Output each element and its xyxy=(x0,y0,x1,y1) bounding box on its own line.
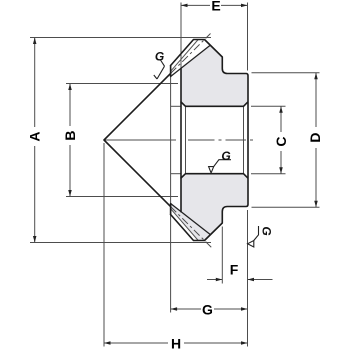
svg-text:B: B xyxy=(62,130,78,140)
svg-text:A: A xyxy=(27,131,43,141)
svg-text:G: G xyxy=(155,50,164,64)
svg-text:H: H xyxy=(171,336,181,350)
svg-text:C: C xyxy=(273,136,289,146)
svg-text:E: E xyxy=(211,0,220,13)
svg-text:G: G xyxy=(202,302,213,318)
svg-text:G: G xyxy=(221,149,230,163)
svg-text:F: F xyxy=(230,262,239,278)
svg-text:D: D xyxy=(307,132,323,142)
svg-text:G: G xyxy=(260,226,274,235)
